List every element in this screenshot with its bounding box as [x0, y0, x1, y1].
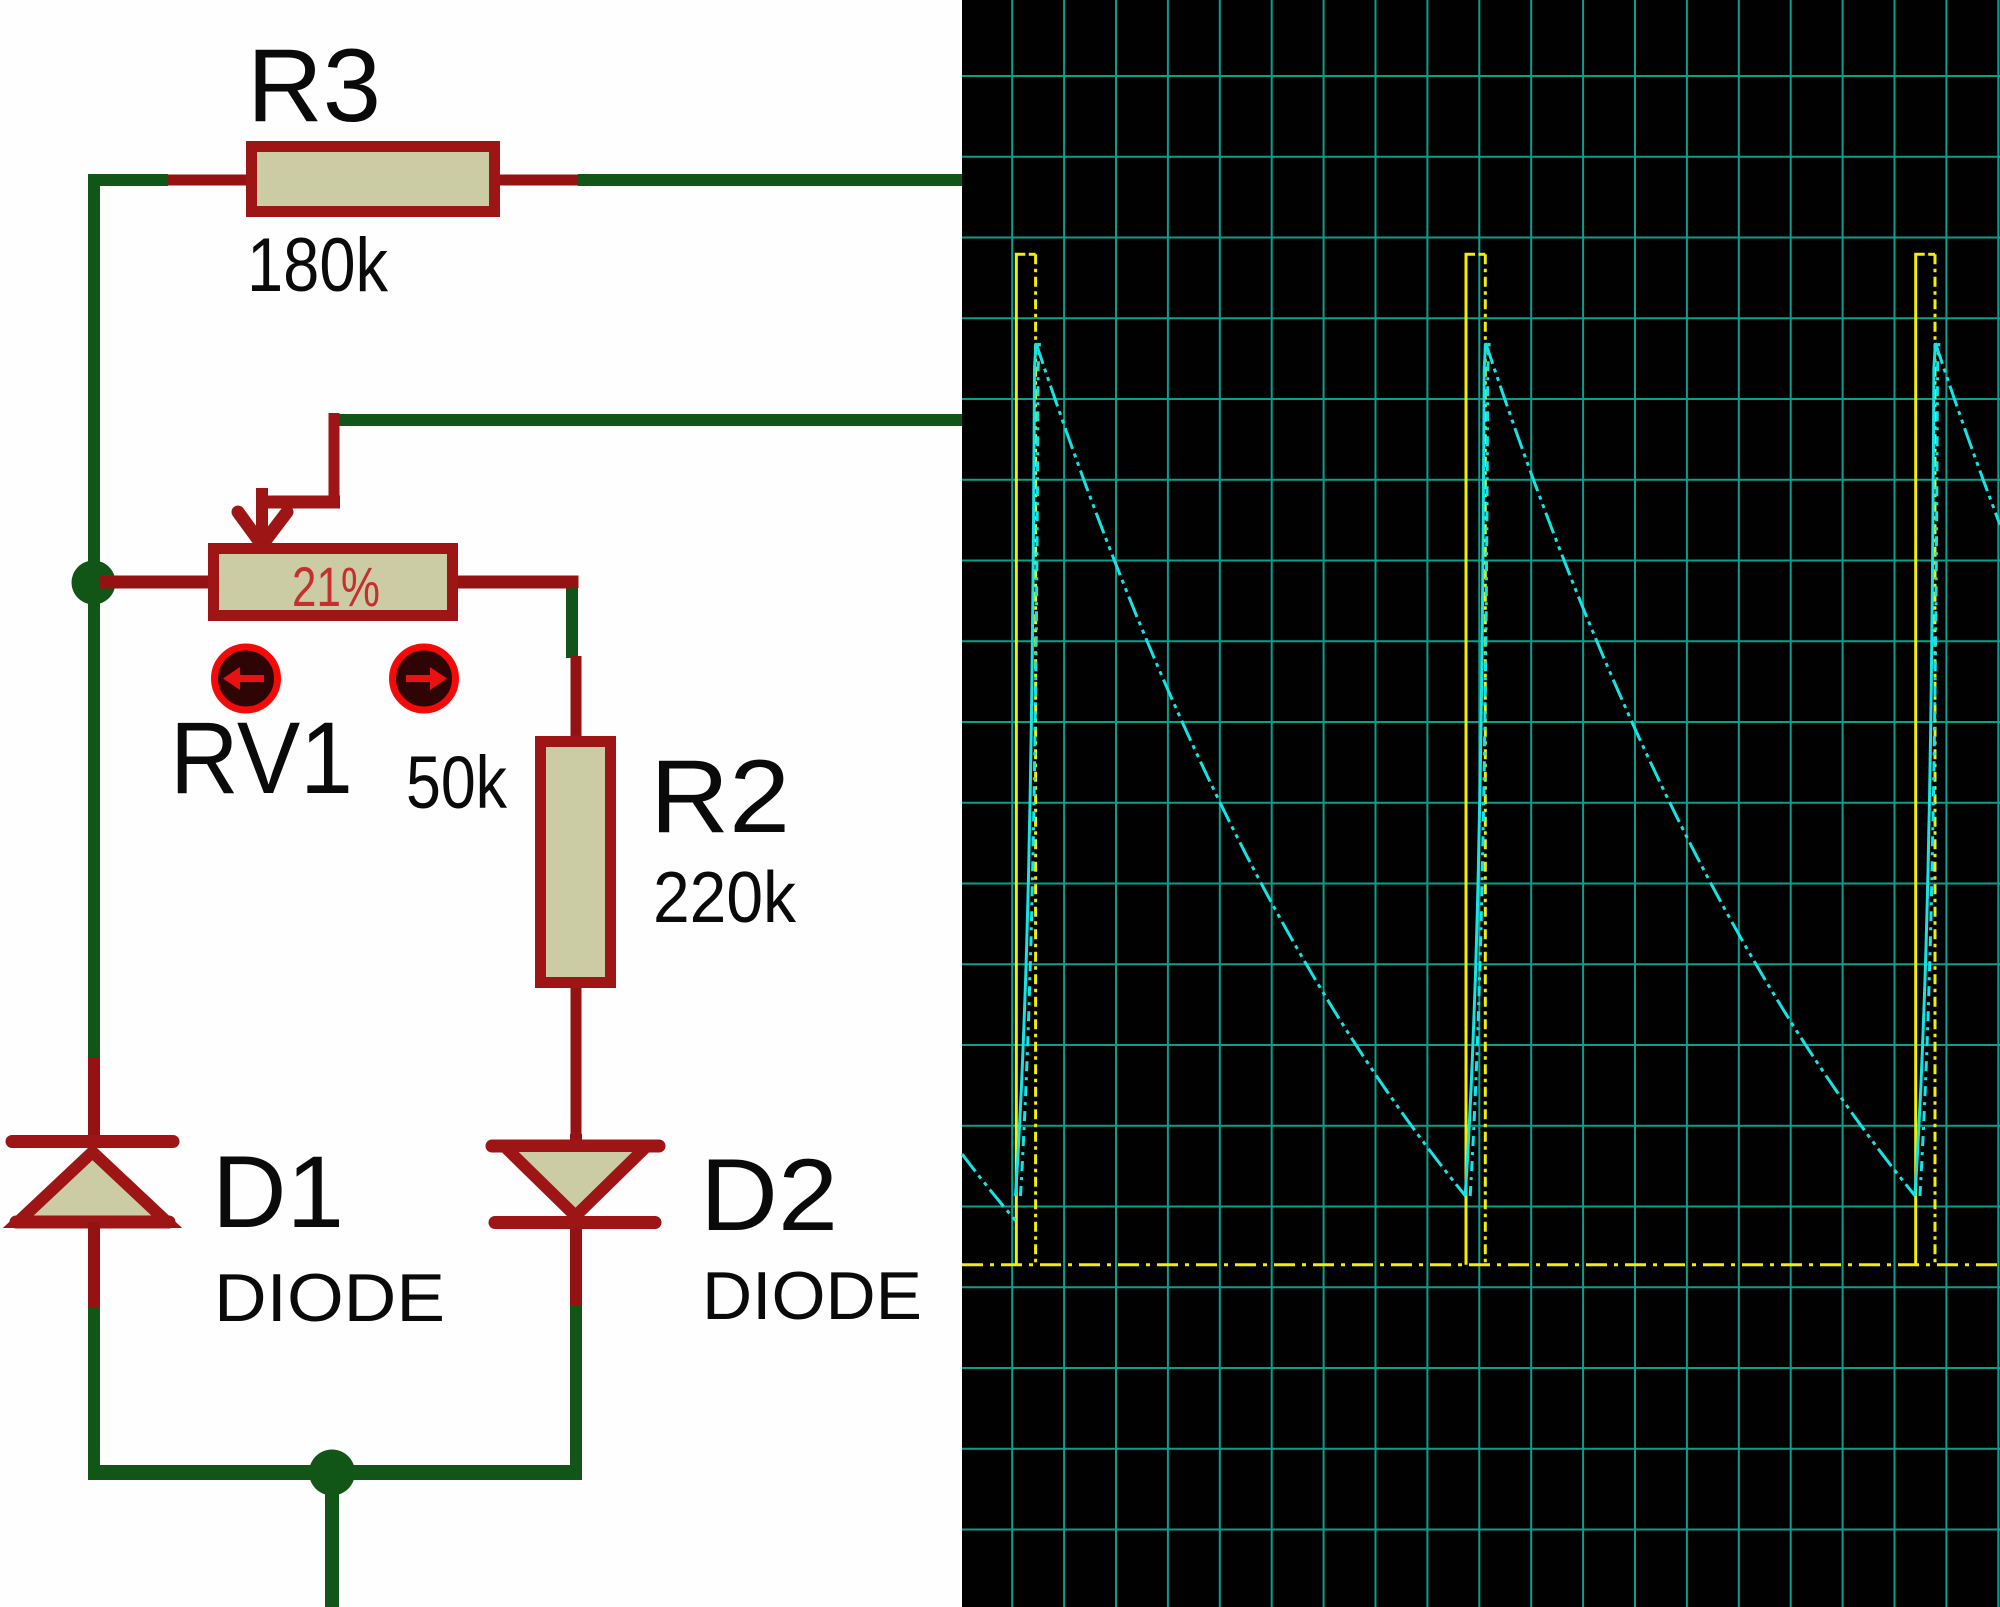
button decrease (left arrow): [215, 647, 278, 710]
wire pot right pin down to R2: [566, 586, 578, 658]
scope grid: [962, 0, 2000, 1607]
button increase (right arrow): [393, 647, 456, 710]
svg-text:220k: 220k: [653, 858, 797, 938]
trace channel B (cyan sawtooth): [962, 343, 2000, 1221]
svg-text:D1: D1: [212, 1135, 344, 1249]
wire left vertical (R3 left to D1): [94, 180, 168, 1057]
svg-text:DIODE: DIODE: [214, 1260, 445, 1336]
svg-text:DIODE: DIODE: [702, 1258, 922, 1334]
svg-text:R2: R2: [650, 739, 790, 855]
diode D1: [12, 1057, 173, 1307]
wire D2 bottom to bottom rail: [570, 1305, 582, 1472]
svg-text:D2: D2: [700, 1138, 838, 1252]
svg-text:180k: 180k: [247, 223, 389, 308]
wire D1 bottom to bottom rail: [88, 1307, 100, 1472]
oscilloscope screen: [962, 0, 2000, 1607]
wire R3 right to scope: [578, 174, 966, 186]
svg-text:R3: R3: [247, 28, 381, 144]
svg-text:21%: 21%: [292, 555, 380, 618]
potentiometer RV1: [100, 413, 572, 616]
svg-text:50k: 50k: [406, 741, 508, 824]
wire wiper to scope: [339, 414, 966, 426]
resistor R2: [541, 656, 611, 1140]
junction node (bottom rail): [309, 1450, 355, 1496]
diode D2: [492, 1134, 659, 1305]
schematic background: [0, 0, 962, 1607]
trace channel A (yellow square wave): [962, 254, 2000, 1264]
wire bottom stub down: [325, 1473, 339, 1607]
svg-text:RV1: RV1: [170, 701, 353, 815]
wire bottom rail: [88, 1465, 582, 1480]
resistor R3: [168, 147, 578, 212]
junction node (pot left / D1 branch): [72, 561, 116, 605]
